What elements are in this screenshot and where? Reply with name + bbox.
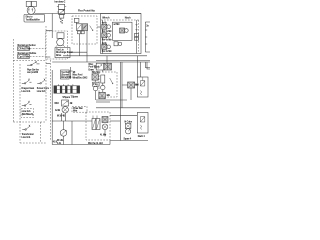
svg-text:T.Spem: T.Spem xyxy=(71,96,78,98)
N cube box xyxy=(125,124,131,129)
svg-text:M 1.8L: M 1.8L xyxy=(57,140,64,142)
svg-text:w/ Mtr: w/ Mtr xyxy=(114,23,120,26)
svg-text:Draw: Draw xyxy=(89,68,95,71)
dashed row in big box xyxy=(101,19,140,21)
flex valve cluster pilot box xyxy=(74,18,79,22)
discharge pump ticks xyxy=(56,45,65,47)
svg-text:Pw 4x Mtr: Pw 4x Mtr xyxy=(102,38,112,41)
svg-text:Normal get Andon: Normal get Andon xyxy=(18,44,37,47)
svg-text:Win the 4L Hrd: Win the 4L Hrd xyxy=(88,142,103,145)
solenoid X box bottom xyxy=(102,117,108,123)
R1 squiggle xyxy=(140,77,143,95)
svg-text:Elec to: Elec to xyxy=(26,15,34,18)
svg-text:CR 4xOTMk: CR 4xOTMk xyxy=(18,48,31,51)
D14 arrow xyxy=(110,78,113,84)
svg-text:Wttr: Wttr xyxy=(73,109,77,112)
pump station box xyxy=(62,100,69,106)
wire horizontal y121 xyxy=(52,120,92,122)
switch S4 xyxy=(22,101,32,106)
P dg valve box xyxy=(93,82,100,86)
big box Winch/Nach xyxy=(101,14,142,54)
valve V1 body lower xyxy=(59,10,65,15)
wire big box bottom to tap xyxy=(106,56,108,63)
winch solenoid valve 1 xyxy=(102,24,111,29)
svg-text:4.2L: 4.2L xyxy=(57,142,62,145)
solenoid block C1b xyxy=(32,1,37,6)
D14 circle xyxy=(101,85,105,89)
svg-text:Misc: Misc xyxy=(89,64,95,66)
boundary horizontal y143 xyxy=(20,142,46,144)
svg-text:Line Grb: Line Grb xyxy=(22,136,31,139)
R2 valve xyxy=(140,117,144,122)
wire drop to bottom pump xyxy=(63,121,65,130)
wire vertical drop from top bus xyxy=(51,14,53,39)
svg-text:N Cube: N Cube xyxy=(125,122,133,124)
wire 1way to P dg xyxy=(94,80,96,82)
dashed box flex prote xyxy=(72,16,97,44)
svg-text:Transformer: Transformer xyxy=(22,133,34,136)
svg-text:Pw 4x Mtr: Pw 4x Mtr xyxy=(102,30,112,33)
svg-text:(BtntWash): (BtntWash) xyxy=(22,113,33,116)
svg-text:Thn Lin: Thn Lin xyxy=(56,49,64,51)
nach sub comp xyxy=(114,42,122,46)
svg-text:Normal get Outline: Normal get Outline xyxy=(18,52,38,55)
svg-text:Line Grb: Line Grb xyxy=(37,90,46,93)
boundary horizontal y60.5 xyxy=(13,60,46,62)
svg-text:(Scrow/: (Scrow/ xyxy=(61,73,69,76)
pump circle bottom box xyxy=(102,124,108,130)
svg-text:Pw 4x Mtr: Pw 4x Mtr xyxy=(102,50,112,53)
discharge pump circle xyxy=(57,39,64,46)
main vertical bus middle xyxy=(51,70,53,145)
svg-text:Screw Conv: Screw Conv xyxy=(37,87,50,90)
wire box to vertical y121 xyxy=(110,120,120,122)
svg-text:MkI: MkI xyxy=(135,85,139,87)
svg-text:Line Grb: Line Grb xyxy=(22,110,31,113)
wire branch to left section xyxy=(46,30,52,32)
wire main top bus xyxy=(35,13,141,15)
right box R2 xyxy=(137,113,148,134)
pump M0 arrows xyxy=(28,9,33,12)
dashed box right mid xyxy=(99,72,117,97)
wire bottom pump to bus xyxy=(63,136,65,144)
wire label box to x87 xyxy=(70,51,87,53)
inner mid rect xyxy=(113,22,133,40)
svg-text:Winch: Winch xyxy=(102,16,110,19)
valve V1 arrow xyxy=(59,10,63,14)
label box Elec to Tool/Backfiller xyxy=(24,14,45,22)
valve V1 lower port block xyxy=(60,15,64,19)
dashed box bottom middle xyxy=(86,112,110,140)
dashed label box Prtae xyxy=(72,106,87,112)
wire right verticals to box R1 xyxy=(137,56,140,77)
dashed connector row 1 xyxy=(30,48,46,50)
svg-text:can (on/OS: can (on/OS xyxy=(27,72,39,74)
wire flex pilot connector xyxy=(76,22,78,23)
P dg circle xyxy=(93,86,97,90)
winch solenoid valve 2 xyxy=(102,33,111,38)
one-way motor X box xyxy=(92,74,98,80)
svg-text:Misc Pool: Misc Pool xyxy=(73,75,83,77)
nach motor valve xyxy=(120,28,129,33)
dashed box S4 label xyxy=(21,109,34,118)
wire pump to label box xyxy=(30,13,32,15)
wire y115 to R2 xyxy=(110,114,137,116)
big box double bottom xyxy=(63,55,147,57)
svg-text:Drive: Drive xyxy=(56,54,62,57)
svg-text:Flex Prote/Alta: Flex Prote/Alta xyxy=(78,10,95,13)
wire tool felt right connector xyxy=(69,67,73,79)
flex valve arrows xyxy=(77,25,87,30)
svg-text:Tool Felt: Tool Felt xyxy=(61,71,70,74)
wire winch column line xyxy=(102,20,104,54)
svg-text:4x1B: 4x1B xyxy=(55,109,61,112)
boundary hydraulic vertical xyxy=(49,60,51,140)
R1 valve xyxy=(140,81,144,86)
winch solenoid valve 3 xyxy=(102,44,111,49)
bus tap valve white xyxy=(94,63,104,70)
wire MkI connectors xyxy=(122,85,131,100)
wire y102 xyxy=(96,101,110,103)
dash box D14 inner narrow rect xyxy=(101,75,105,83)
dashed vertical in big box xyxy=(138,20,140,53)
svg-text:4L Mtr: 4L Mtr xyxy=(100,134,106,137)
CR label box 2 xyxy=(18,55,30,59)
valve V1 side ticks xyxy=(57,6,66,12)
svg-text:Cpd OTMk: Cpd OTMk xyxy=(18,57,29,59)
boundary mid vertical xyxy=(45,26,47,122)
valve V1 spring xyxy=(60,18,63,24)
svg-text:Dragon Heat: Dragon Heat xyxy=(22,87,35,90)
switch S2 xyxy=(22,79,32,84)
bottom pump M2 xyxy=(60,130,67,137)
svg-text:M 16 4B: M 16 4B xyxy=(57,114,65,117)
boundary left vertical xyxy=(12,39,14,122)
wire flex drop 2 xyxy=(86,30,88,62)
svg-text:Brme)C16: Brme)C16 xyxy=(61,76,72,79)
wire drop x72 xyxy=(71,121,73,145)
wire right edge corner xyxy=(145,62,150,69)
svg-text:5/Spem: 5/Spem xyxy=(63,97,71,99)
wire flex box to big box xyxy=(97,26,101,28)
flex valve body B xyxy=(82,24,88,31)
wire double vertical right A xyxy=(120,62,122,141)
svg-text:Wind/Drct OK2: Wind/Drct OK2 xyxy=(73,76,89,79)
svg-text:4B: 4B xyxy=(70,102,73,105)
wire pump drops xyxy=(62,113,66,121)
svg-text:Spare 4: Spare 4 xyxy=(124,137,132,140)
big box right column marks xyxy=(134,34,138,37)
pump station circle xyxy=(62,107,68,113)
wire y100 xyxy=(96,99,127,101)
svg-text:4x4b: 4x4b xyxy=(102,42,108,45)
discharge label box xyxy=(55,48,70,58)
flex valve sub squares xyxy=(77,31,80,34)
dashed box discharge: pump block xyxy=(57,33,64,39)
pump M0 circle xyxy=(27,6,35,14)
svg-text:Nach: Nach xyxy=(125,16,131,19)
svg-text:Prtae Wai: Prtae Wai xyxy=(73,107,83,110)
wire bottom bus xyxy=(52,141,148,145)
wire bus y62 xyxy=(52,61,150,63)
big box right column line xyxy=(136,20,138,54)
big box right column arrows xyxy=(136,24,138,30)
tool felt label box xyxy=(61,70,70,79)
CR label box 1 xyxy=(18,47,30,51)
wire MkI to R1 xyxy=(135,84,138,86)
svg-text:Pool Wash: Pool Wash xyxy=(89,67,100,69)
R2 marks xyxy=(140,125,142,130)
wire y108 xyxy=(96,107,150,109)
switch S1 xyxy=(27,61,40,66)
wire stub y63.5 xyxy=(46,63,50,65)
dashed box discharge conveyor xyxy=(46,31,68,59)
conveyor striped block xyxy=(54,84,80,93)
valve V1 body upper xyxy=(59,4,65,9)
boundary horizontal y122 xyxy=(13,121,46,123)
boundary sub-box verticals xyxy=(20,64,40,143)
right partial box edge xyxy=(145,22,150,52)
wire flex drop 1 xyxy=(79,34,81,56)
D14 drop xyxy=(102,83,104,97)
svg-text:Pipe Sw the: Pipe Sw the xyxy=(27,68,40,71)
gauge Spare4 xyxy=(126,129,131,134)
svg-text:P dg: P dg xyxy=(93,84,98,86)
svg-text:Discharge Convr: Discharge Convr xyxy=(56,51,73,54)
svg-text:4x4b: 4x4b xyxy=(102,22,108,25)
svg-text:Tool/Backfiller: Tool/Backfiller xyxy=(26,18,40,21)
wire tap to D14 xyxy=(102,70,104,72)
flex relief arrow xyxy=(90,26,93,31)
wire bus y60.5 xyxy=(96,59,150,61)
svg-text:1Wy Mtr: 1Wy Mtr xyxy=(92,71,100,74)
switch S3 xyxy=(37,79,45,84)
right box R1 xyxy=(137,77,148,97)
svg-text:Line Grb: Line Grb xyxy=(22,90,31,93)
dashed connector row 2 xyxy=(30,56,46,58)
bus tap valve dark xyxy=(104,63,112,70)
wire P dg drop xyxy=(95,91,97,100)
wire pump drop bottom box xyxy=(104,130,106,137)
lower-left X box 4db xyxy=(99,92,106,99)
switch S5 xyxy=(22,125,30,130)
wire stub y57 xyxy=(46,56,50,58)
solenoid block C1a xyxy=(26,1,31,6)
valve stack in bottom dashed box xyxy=(92,116,100,130)
svg-text:Nach 4: Nach 4 xyxy=(138,135,146,138)
svg-text:har draw C: har draw C xyxy=(55,1,66,4)
flex valve body A xyxy=(76,24,82,31)
MkI X box xyxy=(128,82,135,88)
